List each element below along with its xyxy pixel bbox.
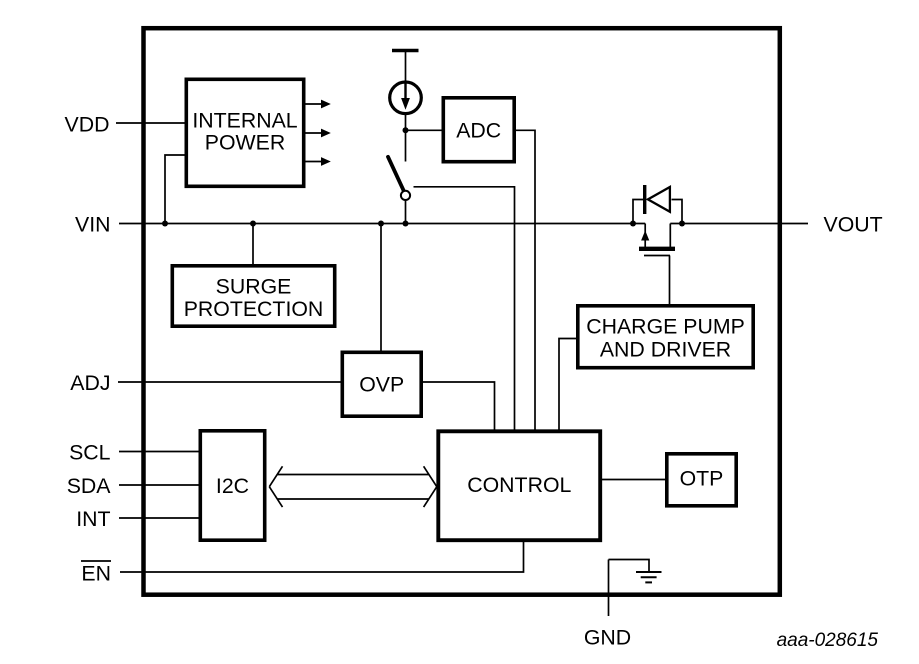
svg-text:aaa-028615: aaa-028615 <box>777 630 879 651</box>
transistor Q1 source lead with body arrow <box>644 224 646 248</box>
ground earth symbol <box>636 572 662 582</box>
node junction dot VIN/OVP <box>378 221 384 227</box>
wire SCL pin lead <box>119 451 199 453</box>
svg-text:SCL: SCL <box>69 441 111 465</box>
block ADC <box>443 98 514 162</box>
wire ADJ pin lead <box>118 381 341 383</box>
svg-text:ADC: ADC <box>456 118 501 142</box>
wire charge pump output to CONTROL <box>559 339 577 431</box>
svg-text:ADJ: ADJ <box>70 371 110 395</box>
diode D1 body diode triangle <box>648 187 670 212</box>
wire switch sense line to CONTROL <box>414 187 515 430</box>
wire EN pin lead to CONTROL bottom <box>120 541 524 572</box>
wire VDD pin lead <box>116 122 186 124</box>
transistor Q1 channel bar <box>639 247 675 251</box>
svg-text:POWER: POWER <box>205 131 285 155</box>
block INTERNAL POWER <box>186 79 303 186</box>
wire diode cathode lead <box>672 200 683 224</box>
switch S1 <box>388 157 410 200</box>
block CONTROL <box>438 431 600 540</box>
wire SDA pin lead <box>119 484 199 486</box>
svg-text:VIN: VIN <box>75 213 111 237</box>
svg-text:PROTECTION: PROTECTION <box>184 297 324 321</box>
svg-text:VOUT: VOUT <box>824 213 883 237</box>
svg-text:I2C: I2C <box>216 474 249 498</box>
current source I1 <box>390 82 422 114</box>
block OTP <box>667 454 736 506</box>
wire switch pole to VIN <box>405 200 407 224</box>
svg-text:CONTROL: CONTROL <box>467 473 571 497</box>
wire current source top lead <box>405 51 407 100</box>
svg-text:OTP: OTP <box>680 467 724 491</box>
wire tap to ADC input <box>406 129 443 131</box>
block OVP <box>342 352 421 416</box>
node junction dot current-source/ADC <box>403 127 409 133</box>
node junction dot VIN/switch <box>403 221 409 227</box>
svg-text:CHARGE PUMP: CHARGE PUMP <box>586 315 745 339</box>
diode D1 body diode cathode bar <box>643 185 646 214</box>
wire MOSFET gate to charge pump <box>669 256 671 305</box>
node junction dot VIN/diode anode <box>630 221 636 227</box>
pin label EN with overline <box>81 561 111 586</box>
svg-text:VDD: VDD <box>65 113 110 137</box>
svg-text:EN: EN <box>81 562 111 586</box>
svg-text:INTERNAL: INTERNAL <box>192 109 297 133</box>
chip boundary <box>144 28 780 595</box>
block I2C <box>200 431 264 540</box>
wire GND to earth symbol <box>609 560 650 572</box>
svg-text:SDA: SDA <box>67 474 112 498</box>
transistor Q1 gate plate <box>644 255 670 257</box>
wire current source bottom lead to switch <box>405 115 407 162</box>
node junction dot VIN/internal-power <box>162 221 168 227</box>
transistor Q1 pass MOSFET with body diode <box>633 185 682 256</box>
svg-text:GND: GND <box>584 626 631 650</box>
wire internal power tap to VIN <box>165 155 186 224</box>
wire diode anode lead <box>633 200 643 224</box>
node junction dot VIN/surge-protection <box>250 221 256 227</box>
svg-text:INT: INT <box>76 507 110 531</box>
wire INT pin lead <box>119 517 199 519</box>
internal power output arrows <box>306 100 331 166</box>
wire VOUT section of bus <box>670 223 808 225</box>
wire ADC output to CONTROL <box>516 130 536 430</box>
transistor Q1 drain lead <box>669 224 671 248</box>
wire OVP tap from VIN <box>380 224 382 352</box>
svg-text:SURGE: SURGE <box>216 275 292 299</box>
svg-text:OVP: OVP <box>359 373 404 397</box>
svg-text:AND DRIVER: AND DRIVER <box>600 338 731 362</box>
bidirectional bus arrow I2C-CONTROL <box>269 466 437 507</box>
wire OVP output to CONTROL <box>423 382 495 430</box>
block CHARGE PUMP AND DRIVER <box>578 306 753 368</box>
wire surge protection tap <box>252 224 254 266</box>
wire CONTROL to OTP <box>602 479 666 481</box>
current source I1 supply bar <box>392 49 419 53</box>
block SURGE PROTECTION <box>172 266 334 326</box>
wire VIN bus (left section) <box>119 223 645 225</box>
wire GND pin lead <box>608 560 610 617</box>
node junction dot VOUT/diode cathode <box>679 221 685 227</box>
